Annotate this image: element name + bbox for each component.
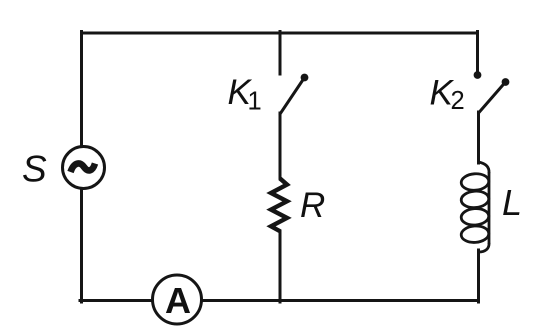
svg-text:R: R [300, 186, 325, 225]
wire middle branch upper [279, 32, 282, 75]
wire bottom rail left [80, 299, 153, 302]
wire top rail [82, 32, 478, 35]
wire right rail upper [476, 32, 479, 73]
label K2 [430, 73, 465, 115]
switch K1 [280, 74, 308, 114]
resistor R [271, 178, 287, 231]
svg-text:2: 2 [451, 87, 465, 115]
svg-text:1: 1 [248, 88, 262, 116]
ac source S [63, 147, 105, 189]
wire middle branch mid [279, 113, 282, 178]
svg-text:S: S [22, 149, 47, 190]
wire left rail upper [80, 32, 83, 147]
wire right rail lower [477, 250, 480, 302]
wire right rail middle [477, 112, 480, 163]
wire left rail lower [80, 189, 83, 303]
svg-text:A: A [165, 280, 191, 321]
wire middle branch lower [279, 231, 282, 302]
switch K2 [474, 71, 510, 113]
label K1 [228, 73, 262, 116]
wire bottom rail right [202, 299, 478, 302]
ammeter A [153, 275, 202, 324]
inductor L [461, 162, 490, 252]
svg-text:L: L [502, 182, 522, 223]
